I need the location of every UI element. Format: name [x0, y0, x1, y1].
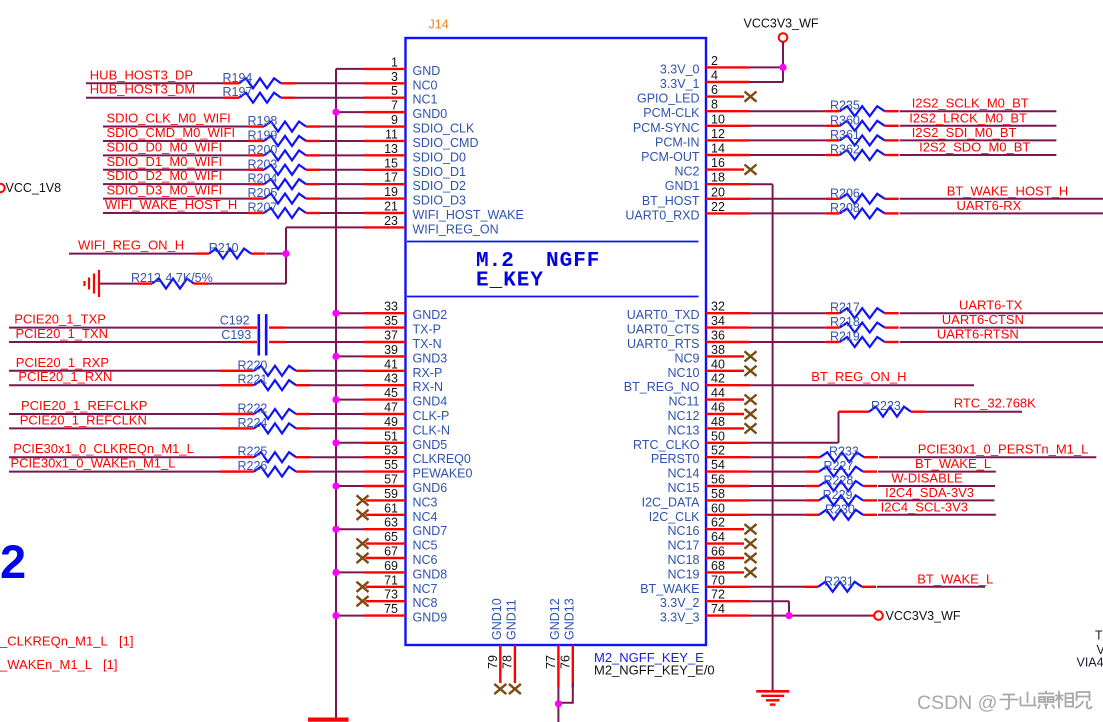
- wire pin to R362: [750, 154, 826, 156]
- svg-text:NC14: NC14: [668, 467, 700, 481]
- svg-text:GND4: GND4: [413, 395, 448, 409]
- svg-text:5: 5: [391, 84, 398, 98]
- wire pin to R360: [750, 125, 826, 127]
- svg-text:CLK-P: CLK-P: [413, 409, 450, 423]
- svg-text:NC3: NC3: [413, 495, 438, 509]
- svg-text:PCIE30x1_0_CLKREQn_M1_L: PCIE30x1_0_CLKREQn_M1_L: [13, 441, 194, 456]
- svg-text:R233: R233: [829, 445, 859, 459]
- svg-text:4.7K/5%: 4.7K/5%: [166, 271, 213, 285]
- svg-text:UART0_TXD: UART0_TXD: [627, 308, 700, 322]
- wire SDIO_CMD_M0_WIFI to pin: [103, 140, 249, 142]
- svg-text:75: 75: [384, 602, 398, 616]
- svg-text:49: 49: [384, 415, 398, 429]
- svg-text:16: 16: [711, 156, 725, 170]
- svg-text:UART6-RX: UART6-RX: [957, 198, 1022, 213]
- svg-text:NC12: NC12: [668, 409, 700, 423]
- svg-text:32: 32: [711, 300, 725, 314]
- svg-text:PCIE20_1_REFCLKN: PCIE20_1_REFCLKN: [20, 412, 147, 427]
- svg-text:NC10: NC10: [668, 366, 700, 380]
- svg-text:PCIE20_1_REFCLKP: PCIE20_1_REFCLKP: [21, 398, 147, 413]
- junction GND pin 75: [332, 612, 339, 619]
- svg-text:_WAKEn_M1_L: _WAKEn_M1_L: [0, 657, 92, 672]
- svg-text:SDIO_D2_M0_WIFI: SDIO_D2_M0_WIFI: [107, 168, 223, 183]
- wire R223 to RTC_32.768K: [925, 411, 1022, 413]
- resistor R212: [138, 282, 152, 284]
- svg-text:NC2: NC2: [674, 165, 699, 179]
- svg-text:R212: R212: [131, 271, 161, 285]
- svg-text:R360: R360: [830, 113, 860, 127]
- svg-text:34: 34: [711, 314, 725, 328]
- ground (bottom center): [756, 690, 789, 693]
- svg-text:70: 70: [711, 573, 725, 587]
- svg-text:R218: R218: [830, 315, 860, 329]
- junction GND0 pin 7: [332, 109, 339, 116]
- svg-text:51: 51: [384, 429, 398, 443]
- connector J14 bottom pins 76-79 (stubs, numbers, names GND10-GND13): [499, 645, 501, 683]
- resistor R203: [249, 169, 265, 171]
- resistor R208: [826, 212, 840, 214]
- svg-text:12: 12: [711, 127, 725, 141]
- svg-text:23: 23: [384, 214, 398, 228]
- svg-text:62: 62: [711, 516, 725, 530]
- svg-text:18: 18: [711, 171, 725, 185]
- no-connect pin 65: [357, 539, 369, 549]
- wire pin to R229: [750, 499, 806, 501]
- svg-text:2: 2: [711, 54, 718, 68]
- wire pin to R206: [750, 198, 826, 200]
- no-connect pin 78: [509, 684, 521, 694]
- wire BT_REG_NO pin 42: [750, 384, 975, 386]
- resistor R222: [220, 413, 254, 415]
- no-connect pin 68: [745, 567, 757, 577]
- svg-text:R226: R226: [238, 459, 268, 473]
- svg-text:3.3V_1: 3.3V_1: [660, 77, 700, 91]
- svg-text:R220: R220: [238, 358, 268, 372]
- resistor R361: [826, 139, 840, 141]
- svg-text:14: 14: [711, 142, 725, 156]
- resistor R205: [249, 197, 265, 199]
- resistor R210: [196, 252, 210, 254]
- resistor R362: [826, 154, 840, 156]
- wire ground to R212: [99, 283, 138, 285]
- svg-text:17: 17: [384, 171, 398, 185]
- junction GND pin 45: [332, 396, 339, 403]
- svg-text:R228: R228: [824, 474, 854, 488]
- svg-text:GND0: GND0: [413, 107, 448, 121]
- svg-text:VCC_1V8: VCC_1V8: [6, 181, 62, 195]
- no-connect pin 73: [357, 596, 369, 606]
- wire 3.3V_0 / 3.3V_1 to VCC3V3_WF: [750, 66, 784, 68]
- svg-text:42: 42: [711, 372, 725, 386]
- svg-text:I2C_CLK: I2C_CLK: [649, 510, 700, 524]
- svg-text:PCM-IN: PCM-IN: [655, 135, 699, 149]
- svg-text:TX-P: TX-P: [413, 323, 441, 337]
- wire pin to R361: [750, 139, 826, 141]
- svg-text:NC1: NC1: [413, 93, 438, 107]
- svg-text:GND3: GND3: [413, 351, 448, 365]
- svg-text:10: 10: [711, 112, 725, 126]
- wire pin to R230: [750, 514, 806, 516]
- svg-text:3.3V_3: 3.3V_3: [660, 611, 700, 625]
- svg-text:UART0_RXD: UART0_RXD: [625, 208, 699, 222]
- svg-text:GND1: GND1: [665, 179, 700, 193]
- svg-text:GND10: GND10: [490, 598, 504, 640]
- wire pin 23 WIFI_REG_ON to junction: [286, 226, 364, 228]
- junction GND pin 69: [332, 569, 339, 576]
- wire pin to R228: [750, 485, 806, 487]
- svg-text:GPIO_LED: GPIO_LED: [637, 92, 700, 106]
- svg-text:45: 45: [384, 386, 398, 400]
- svg-text:60: 60: [711, 501, 725, 515]
- svg-text:HUB_HOST3_DM: HUB_HOST3_DM: [90, 82, 195, 97]
- no-connect pin 16: [745, 165, 757, 175]
- svg-text:NC11: NC11: [668, 395, 699, 409]
- svg-text:SDIO_CMD: SDIO_CMD: [413, 136, 479, 150]
- svg-text:RX-N: RX-N: [413, 380, 444, 394]
- junction WIFI_REG_ON: [282, 250, 289, 257]
- svg-text:69: 69: [384, 559, 398, 573]
- svg-text:15: 15: [384, 156, 398, 170]
- resistor R230: [805, 514, 819, 516]
- svg-text:38: 38: [711, 343, 725, 357]
- svg-text:64: 64: [711, 530, 725, 544]
- svg-text:BT_REG_ON_H: BT_REG_ON_H: [811, 369, 906, 384]
- no-connect pin 79: [494, 684, 506, 694]
- svg-text:PCIE20_1_RXP: PCIE20_1_RXP: [16, 355, 109, 370]
- wire pin to R217: [750, 312, 826, 314]
- svg-text:44: 44: [711, 386, 725, 400]
- svg-text:GND11: GND11: [504, 599, 518, 640]
- resistor R219: [826, 341, 840, 343]
- no-connect pin 62: [745, 524, 757, 534]
- svg-text:43: 43: [384, 372, 398, 386]
- svg-text:PCM-SYNC: PCM-SYNC: [633, 121, 700, 135]
- resistor R231: [804, 586, 818, 588]
- svg-text:R235: R235: [830, 99, 860, 113]
- junction GND pin 57: [332, 482, 339, 489]
- svg-text:BT_HOST: BT_HOST: [642, 194, 700, 208]
- svg-text:SDIO_D0_M0_WIFI: SDIO_D0_M0_WIFI: [107, 139, 223, 154]
- svg-text:I2S2_SDO_M0_BT: I2S2_SDO_M0_BT: [919, 140, 1030, 155]
- svg-text:BT_WAKE_L: BT_WAKE_L: [917, 571, 993, 586]
- wire PCIE20_1_RXP to R220: [9, 370, 240, 372]
- resistor R224: [220, 427, 254, 429]
- svg-text:74: 74: [711, 602, 725, 616]
- svg-text:76: 76: [558, 655, 572, 669]
- resistor R194: [224, 82, 240, 84]
- svg-text:SDIO_D0: SDIO_D0: [413, 150, 467, 164]
- svg-text:WIFI_REG_ON: WIFI_REG_ON: [413, 222, 499, 236]
- wire pin to R231: [750, 586, 805, 588]
- svg-text:R208: R208: [830, 201, 860, 215]
- svg-text:R203: R203: [248, 157, 278, 171]
- wire SDIO_D0_M0_WIFI to pin: [103, 154, 249, 156]
- svg-text:R198: R198: [248, 114, 278, 128]
- svg-text:13: 13: [384, 142, 398, 156]
- svg-text:WIFI_WAKE_HOST_H: WIFI_WAKE_HOST_H: [105, 197, 237, 212]
- svg-text:53: 53: [384, 444, 398, 458]
- svg-text:VIA4: VIA4: [1077, 656, 1103, 670]
- svg-text:GND6: GND6: [413, 481, 448, 495]
- capacitor C192: [242, 326, 258, 328]
- svg-text:37: 37: [384, 329, 398, 343]
- resistor R207: [249, 212, 265, 214]
- svg-text:M2_NGFF_KEY_E/0: M2_NGFF_KEY_E/0: [594, 663, 715, 678]
- svg-text:GND9: GND9: [413, 611, 448, 625]
- svg-text:50: 50: [711, 429, 725, 443]
- wire HUB_HOST3_DM to pin: [86, 97, 224, 99]
- junction GND pin 39: [332, 353, 339, 360]
- svg-text:NC9: NC9: [674, 351, 699, 365]
- svg-text:UART6-CTSN: UART6-CTSN: [942, 312, 1024, 327]
- svg-text:R204: R204: [248, 172, 278, 186]
- svg-text:58: 58: [711, 487, 725, 501]
- svg-text:CLKREQ0: CLKREQ0: [413, 452, 471, 466]
- wire SDIO_D3_M0_WIFI to pin: [103, 198, 249, 200]
- resistor R220: [220, 370, 254, 372]
- no-connect pin 40: [745, 366, 757, 376]
- svg-text:[1]: [1]: [103, 657, 117, 672]
- resistor R217: [826, 312, 840, 314]
- svg-text:SDIO_CMD_M0_WIFI: SDIO_CMD_M0_WIFI: [107, 125, 236, 140]
- resistor R221: [220, 384, 254, 386]
- svg-text:NC7: NC7: [413, 582, 438, 596]
- svg-text:41: 41: [384, 357, 398, 371]
- wire 3.3V_2 pin 72: [750, 600, 790, 602]
- svg-text:54: 54: [711, 458, 725, 472]
- wire pin to R233: [750, 456, 807, 458]
- svg-text:WIFI_REG_ON_H: WIFI_REG_ON_H: [78, 238, 184, 253]
- svg-text:PCM-OUT: PCM-OUT: [641, 150, 700, 164]
- no-connect pin 48: [745, 423, 757, 433]
- junction pins 76/77: [555, 700, 562, 707]
- svg-text:PEWAKE0: PEWAKE0: [413, 467, 473, 481]
- svg-text:77: 77: [544, 655, 558, 669]
- svg-text:GND: GND: [413, 64, 441, 78]
- svg-text:BT_WAKE_L: BT_WAKE_L: [915, 456, 991, 471]
- svg-text:4: 4: [711, 69, 718, 83]
- resistor R199: [249, 140, 265, 142]
- svg-text:PCIE20_1_RXN: PCIE20_1_RXN: [18, 369, 112, 384]
- svg-text:NC17: NC17: [668, 539, 700, 553]
- svg-text:40: 40: [711, 357, 725, 371]
- svg-text:48: 48: [711, 415, 725, 429]
- svg-text:R206: R206: [830, 186, 860, 200]
- svg-text:22: 22: [711, 200, 725, 214]
- junction 3.3V pin 2: [779, 64, 786, 71]
- capacitor C193: [242, 341, 258, 343]
- wire RTC_CLKO pin 50 elbow: [750, 442, 839, 444]
- wire 3.3V_3 pin 74 to VCC3V3_WF: [750, 615, 870, 617]
- svg-text:R199: R199: [248, 128, 278, 142]
- svg-text:20: 20: [711, 185, 725, 199]
- wire SDIO_CLK_M0_WIFI to pin: [103, 126, 249, 128]
- svg-text:3.3V_2: 3.3V_2: [660, 596, 700, 610]
- svg-text:57: 57: [384, 473, 398, 487]
- svg-text:UART0_CTS: UART0_CTS: [627, 323, 700, 337]
- svg-text:11: 11: [385, 127, 398, 141]
- svg-text:59: 59: [384, 487, 398, 501]
- svg-text:RX-P: RX-P: [413, 366, 443, 380]
- svg-text:61: 61: [384, 501, 398, 515]
- no-connect pin 67: [357, 553, 369, 563]
- svg-text:55: 55: [384, 458, 398, 472]
- wire pin to R235: [750, 110, 826, 112]
- svg-text:9: 9: [391, 113, 398, 127]
- svg-text:NGFF: NGFF: [546, 250, 600, 273]
- no-connect pin 38: [745, 351, 757, 361]
- resistor R200: [249, 154, 265, 156]
- svg-text:R200: R200: [248, 143, 278, 157]
- svg-text:[1]: [1]: [119, 634, 133, 649]
- wire pin to R218: [750, 327, 826, 329]
- resistor R204: [249, 183, 265, 185]
- ground (R212, left): [98, 270, 100, 297]
- resistor R229: [805, 499, 819, 501]
- svg-text:UART6-RTSN: UART6-RTSN: [937, 327, 1019, 342]
- resistor R206: [826, 198, 840, 200]
- svg-text:NC16: NC16: [668, 524, 700, 538]
- svg-text:GND2: GND2: [413, 308, 448, 322]
- svg-text:BT_WAKE: BT_WAKE: [640, 582, 699, 596]
- svg-text:NC4: NC4: [413, 510, 438, 524]
- svg-text:35: 35: [384, 314, 398, 328]
- svg-text:R230: R230: [825, 502, 855, 516]
- svg-text:UART0_RTS: UART0_RTS: [627, 337, 699, 351]
- svg-text:T: T: [1095, 629, 1103, 643]
- svg-text:46: 46: [711, 401, 725, 415]
- connector J14 right pins 32-74 (stubs, numbers, names): [706, 312, 750, 314]
- wire pin to R227: [750, 471, 806, 473]
- wire PCIE20_1_REFCLKN to R224: [9, 427, 240, 429]
- svg-text:NC19: NC19: [668, 567, 700, 581]
- svg-text:NC0: NC0: [413, 78, 438, 92]
- svg-text:CSDN @: CSDN @: [917, 692, 997, 714]
- svg-text:VCC3V3_WF: VCC3V3_WF: [743, 17, 818, 31]
- svg-text:NC8: NC8: [413, 596, 438, 610]
- svg-text:52: 52: [711, 444, 725, 458]
- svg-text:79: 79: [486, 655, 500, 669]
- svg-text:65: 65: [384, 530, 398, 544]
- svg-text:SDIO_D1: SDIO_D1: [413, 165, 467, 179]
- svg-text:HUB_HOST3_DP: HUB_HOST3_DP: [90, 67, 193, 82]
- wire pin to R219: [750, 341, 826, 343]
- svg-text:R223: R223: [871, 399, 901, 413]
- svg-text:_CLKREQn_M1_L: _CLKREQn_M1_L: [0, 634, 108, 649]
- svg-text:I2C4_SDA-3V3: I2C4_SDA-3V3: [885, 485, 974, 500]
- wire PCIE20_1_TXN to capacitor: [9, 341, 242, 343]
- no-connect pin 46: [745, 409, 757, 419]
- resistor R360: [826, 125, 840, 127]
- no-connect pin 44: [745, 395, 757, 405]
- wire WIFI_WAKE_HOST_H to pin: [103, 212, 249, 214]
- junction GND pin 33: [332, 310, 339, 317]
- svg-text:63: 63: [384, 516, 398, 530]
- svg-text:21: 21: [384, 200, 398, 214]
- junction 3.3V_3 pin 74: [785, 612, 792, 619]
- resistor R227: [805, 470, 819, 472]
- resistor R197: [224, 97, 240, 99]
- svg-text:BT_WAKE_HOST_H: BT_WAKE_HOST_H: [947, 183, 1069, 198]
- resistor R233: [806, 456, 820, 458]
- wire PCIE30x1_0_CLKREQn_M1_L to R225: [9, 456, 240, 458]
- svg-text:72: 72: [711, 588, 725, 602]
- svg-text:PERST0: PERST0: [651, 452, 700, 466]
- svg-text:BT_REG_NO: BT_REG_NO: [624, 380, 700, 394]
- svg-text:SDIO_CLK_M0_WIFI: SDIO_CLK_M0_WIFI: [107, 111, 231, 126]
- svg-text:E_KEY: E_KEY: [476, 270, 544, 293]
- svg-text:PCM-CLK: PCM-CLK: [643, 106, 700, 120]
- svg-text:R231: R231: [824, 574, 854, 588]
- svg-text:R197: R197: [223, 85, 253, 99]
- svg-text:R207: R207: [248, 201, 278, 215]
- svg-text:VCC3V3_WF: VCC3V3_WF: [886, 609, 961, 623]
- svg-text:66: 66: [711, 545, 725, 559]
- svg-text:47: 47: [384, 401, 398, 415]
- wire PCIE30x1_0_WAKEn_M1_L to R226: [9, 471, 240, 473]
- svg-text:I2C_DATA: I2C_DATA: [642, 495, 701, 509]
- wire GND bus (left, pins 1/7/33/39/45/51/57/63/69/75): [335, 69, 337, 718]
- resistor R235: [826, 110, 840, 112]
- wire pin to R208: [750, 212, 826, 214]
- svg-text:R222: R222: [238, 402, 268, 416]
- svg-text:GND8: GND8: [413, 567, 448, 581]
- wire HUB_HOST3_DP to pin: [86, 82, 224, 84]
- svg-text:R361: R361: [830, 128, 860, 142]
- svg-text:33: 33: [384, 300, 398, 314]
- svg-text:J14: J14: [429, 18, 449, 32]
- wire PCIE20_1_REFCLKP to R222: [9, 413, 240, 415]
- wire GND1 pin 18 to ground: [750, 183, 773, 185]
- svg-text:6: 6: [711, 83, 718, 97]
- no-connect pin 59: [357, 495, 369, 505]
- power port VCC3V3_WF (bottom right): [874, 611, 883, 620]
- junction GND pin 63: [332, 526, 339, 533]
- svg-text:R362: R362: [830, 143, 860, 157]
- svg-text:R229: R229: [823, 488, 853, 502]
- svg-text:R219: R219: [830, 330, 860, 344]
- connector J14 left pins 33-75 (stubs, numbers, names): [364, 312, 406, 314]
- svg-text:SDIO_D2: SDIO_D2: [413, 179, 467, 193]
- svg-text:3.3V_0: 3.3V_0: [660, 62, 700, 76]
- svg-text:39: 39: [384, 343, 398, 357]
- svg-text:SDIO_D3_M0_WIFI: SDIO_D3_M0_WIFI: [107, 183, 223, 198]
- svg-text:CLK-N: CLK-N: [413, 423, 451, 437]
- svg-text:7: 7: [391, 99, 398, 113]
- svg-text:RTC_32.768K: RTC_32.768K: [954, 396, 1036, 411]
- svg-text:36: 36: [711, 329, 725, 343]
- svg-text:R205: R205: [248, 186, 278, 200]
- no-connect pin 61: [357, 510, 369, 520]
- svg-text:NC6: NC6: [413, 553, 438, 567]
- svg-text:NC18: NC18: [668, 553, 700, 567]
- wire pin77/pin76 join to off-page: [557, 688, 559, 704]
- svg-text:SDIO_CLK: SDIO_CLK: [413, 122, 475, 136]
- svg-text:1: 1: [391, 55, 398, 69]
- svg-text:PCIE30x1_0_WAKEn_M1_L: PCIE30x1_0_WAKEn_M1_L: [11, 456, 176, 471]
- svg-text:I2S2_LRCK_M0_BT: I2S2_LRCK_M0_BT: [909, 110, 1027, 125]
- svg-text:GND13: GND13: [562, 598, 576, 640]
- svg-text:SDIO_D3: SDIO_D3: [413, 194, 467, 208]
- junction GND pin 51: [332, 439, 339, 446]
- svg-text:NC15: NC15: [668, 481, 700, 495]
- connector J14 right pins 2-22 (stubs, numbers, names): [706, 66, 750, 68]
- no-connect pin 6: [745, 92, 757, 102]
- resistor R218: [826, 326, 840, 328]
- ground (bottom left, bus termination): [308, 718, 349, 722]
- svg-text:R221: R221: [238, 373, 268, 387]
- svg-text:I2S2_SCLK_M0_BT: I2S2_SCLK_M0_BT: [912, 96, 1029, 111]
